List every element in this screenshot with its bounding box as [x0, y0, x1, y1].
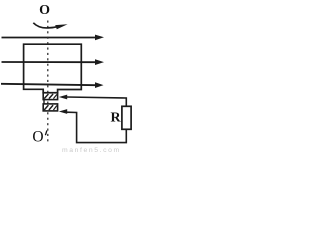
svg-text:R: R [111, 111, 122, 126]
svg-text:manfen5.com: manfen5.com [62, 147, 121, 154]
brush 2 (left-pointing contact) [59, 109, 67, 114]
svg-text:O: O [39, 3, 50, 18]
axis dotted line O-O' [47, 21, 49, 144]
coil armature box with bottom axle notch [24, 44, 82, 92]
svg-text:O: O [32, 129, 43, 146]
rotation swoosh arrow at O [33, 23, 67, 29]
brush 1 (left-pointing contact) [59, 95, 67, 100]
field line B3 (bottom horizontal arrow) [1, 82, 104, 88]
shaft segment between slip rings [43, 100, 45, 104]
wire: brush 2 down-left loop to resistor bottom [67, 112, 127, 142]
field line B1 (top horizontal arrow) [2, 35, 105, 41]
slip ring 1 (hatched block) [43, 93, 57, 100]
resistor R (box) [122, 106, 131, 129]
wire: brush 1 to resistor top [67, 97, 127, 106]
field line B2 (middle horizontal arrow) [2, 59, 105, 65]
slip ring 2 (hatched block) [43, 104, 57, 111]
